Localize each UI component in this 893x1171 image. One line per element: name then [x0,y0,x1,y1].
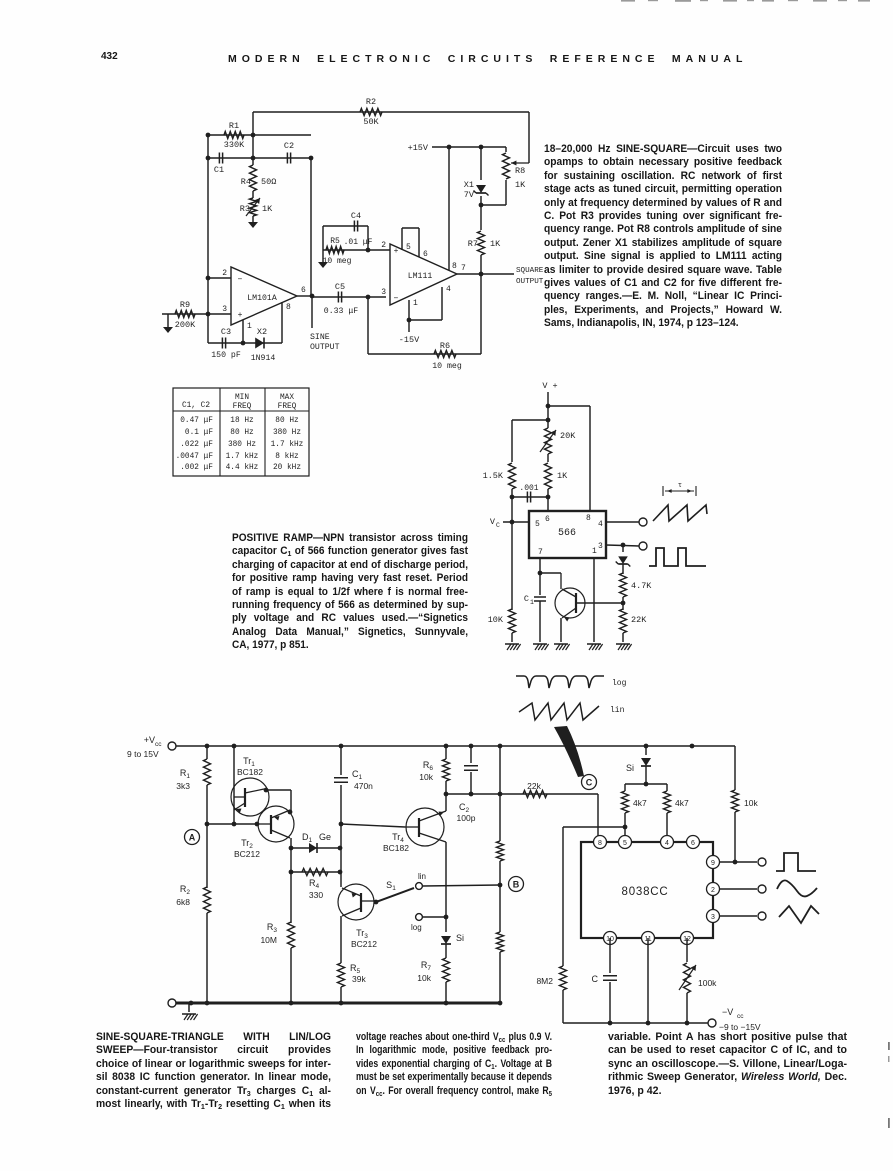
svg-text:7: 7 [461,264,466,273]
svg-text:10k: 10k [744,798,758,808]
svg-text:log: log [411,923,422,932]
svg-text:R4: R4 [241,177,251,187]
svg-text:R3: R3 [240,204,250,214]
svg-text:R8: R8 [515,166,525,176]
svg-text:6: 6 [423,250,428,259]
svg-text:3: 3 [381,288,386,297]
svg-text:R2: R2 [180,884,191,896]
svg-text:C: C [496,522,500,529]
svg-text:39k: 39k [352,974,366,984]
svg-text:1N914: 1N914 [251,354,276,363]
svg-text:0.47 μF: 0.47 μF [180,417,213,425]
svg-text:3: 3 [598,542,603,551]
svg-text:22K: 22K [631,615,647,625]
svg-text:3k3: 3k3 [176,781,190,791]
svg-text:-15V: -15V [399,335,420,345]
svg-text:4: 4 [665,840,669,847]
svg-text:566: 566 [558,528,576,539]
svg-text:C1, C2: C1, C2 [182,402,210,410]
svg-text:C: C [592,974,599,984]
svg-text:C2: C2 [284,141,294,151]
svg-text:4: 4 [446,285,451,294]
svg-text:2: 2 [222,269,227,278]
svg-text:10 meg: 10 meg [323,257,352,266]
svg-text:R9: R9 [180,300,190,310]
svg-text:C: C [586,778,593,788]
svg-text:4.4 kHz: 4.4 kHz [226,464,259,472]
svg-text:1: 1 [413,299,418,308]
svg-text:MAX: MAX [280,394,294,402]
svg-text:C1: C1 [214,165,224,175]
svg-text:S1: S1 [386,880,396,892]
svg-text:Ge: Ge [319,832,331,842]
svg-text:R7: R7 [421,960,432,972]
svg-text:−V: −V [722,1007,733,1017]
svg-text:LM101A: LM101A [247,294,277,303]
svg-text:τ: τ [678,482,682,490]
svg-text:10K: 10K [488,615,504,625]
svg-text:1K: 1K [490,239,501,249]
svg-text:1K: 1K [515,180,526,190]
svg-text:OUTPUT: OUTPUT [516,278,544,286]
svg-text:10k: 10k [417,973,431,983]
svg-text:6k8: 6k8 [176,897,190,907]
svg-text:+: + [394,247,399,256]
svg-text:5: 5 [406,243,411,252]
svg-text:R1: R1 [180,768,191,780]
svg-text:8: 8 [452,262,457,271]
svg-text:1.5K: 1.5K [483,471,504,481]
svg-text:R1: R1 [229,121,239,131]
svg-text:C3: C3 [221,327,231,337]
svg-text:5: 5 [535,520,540,529]
svg-text:R6: R6 [440,341,450,351]
svg-text:+V: +V [144,735,155,745]
svg-text:SQUARE: SQUARE [516,267,544,275]
svg-text:5: 5 [623,840,627,847]
svg-text:R4: R4 [309,878,320,890]
svg-text:80 Hz: 80 Hz [230,429,254,437]
svg-text:+: + [238,311,243,320]
svg-text:BC212: BC212 [351,939,377,949]
svg-text:+15V: +15V [408,143,429,153]
svg-text:V: V [490,517,496,527]
svg-text:2: 2 [711,887,715,894]
svg-text:7: 7 [538,548,543,557]
svg-text:20K: 20K [560,431,576,441]
svg-text:–: – [393,293,398,303]
svg-text:lin: lin [610,706,625,715]
svg-text:10M: 10M [260,935,277,945]
svg-text:R7: R7 [468,239,478,249]
svg-text:22k: 22k [527,781,541,791]
svg-text:50K: 50K [363,117,379,127]
svg-text:50Ω: 50Ω [261,177,276,187]
svg-text:4: 4 [598,520,603,529]
svg-text:18 Hz: 18 Hz [230,417,254,425]
svg-text:8 kHz: 8 kHz [275,453,299,461]
svg-text:–: – [237,274,242,284]
svg-text:1: 1 [530,599,534,606]
svg-text:LM111: LM111 [408,272,433,281]
svg-text:3: 3 [711,914,715,921]
svg-text:BC182: BC182 [383,843,409,853]
svg-text:log: log [612,679,627,688]
svg-text:1: 1 [592,547,597,556]
svg-text:SINE: SINE [310,333,330,342]
svg-text:.002 μF: .002 μF [180,464,213,472]
svg-text:6: 6 [545,515,550,524]
svg-text:X1: X1 [464,180,474,190]
svg-text:R5: R5 [330,237,340,246]
svg-text:R3: R3 [267,922,278,934]
svg-text:470n: 470n [354,781,373,791]
svg-text:1.7 kHz: 1.7 kHz [271,441,304,449]
svg-text:330: 330 [309,890,323,900]
svg-text:R6: R6 [423,760,434,772]
svg-text:80 Hz: 80 Hz [275,417,299,425]
svg-text:10k: 10k [419,772,433,782]
svg-text:OUTPUT: OUTPUT [310,343,340,352]
svg-text:Si: Si [626,763,634,773]
svg-text:6: 6 [691,840,695,847]
svg-text:100p: 100p [457,813,476,823]
svg-text:D1: D1 [302,832,313,844]
svg-text:lin: lin [418,872,426,881]
svg-text:0.1 μF: 0.1 μF [185,429,213,437]
svg-text:7V: 7V [464,190,475,200]
svg-text:V +: V + [542,381,557,391]
svg-text:200K: 200K [175,320,196,330]
svg-text:R2: R2 [366,97,376,107]
svg-text:C4: C4 [351,211,361,221]
svg-text:330K: 330K [224,140,245,150]
svg-text:cc: cc [155,741,162,748]
svg-text:1.7 kHz: 1.7 kHz [226,453,259,461]
svg-text:380 Hz: 380 Hz [228,441,256,449]
svg-text:150 pF: 150 pF [211,351,241,360]
svg-text:FREQ: FREQ [233,403,252,411]
svg-text:1K: 1K [262,204,273,214]
svg-text:.022 μF: .022 μF [180,441,213,449]
svg-text:100k: 100k [698,978,717,988]
svg-text:C1: C1 [352,769,363,781]
svg-text:8: 8 [286,303,291,312]
svg-text:.01 μF: .01 μF [344,238,373,247]
svg-text:3: 3 [222,305,227,314]
svg-text:20 kHz: 20 kHz [273,464,301,472]
svg-text:8038CC: 8038CC [622,886,669,898]
svg-text:8: 8 [586,514,591,523]
svg-text:A: A [189,833,196,843]
svg-text:cc: cc [737,1013,744,1020]
svg-text:8: 8 [598,840,602,847]
svg-text:FREQ: FREQ [278,403,297,411]
svg-text:2: 2 [381,241,386,250]
svg-text:B: B [513,880,520,890]
svg-text:4.7K: 4.7K [631,581,652,591]
svg-text:MIN: MIN [235,394,249,402]
svg-text:C5: C5 [335,282,345,292]
svg-text:380 Hz: 380 Hz [273,429,301,437]
svg-text:BC212: BC212 [234,849,260,859]
svg-text:1K: 1K [557,471,568,481]
svg-text:.001: .001 [519,484,538,493]
svg-text:4k7: 4k7 [675,798,689,808]
svg-text:X2: X2 [257,327,267,337]
svg-text:6: 6 [301,286,306,295]
svg-text:4k7: 4k7 [633,798,647,808]
svg-text:8M2: 8M2 [536,976,553,986]
svg-text:9: 9 [711,860,715,867]
svg-text:BC182: BC182 [237,767,263,777]
svg-text:0.33 μF: 0.33 μF [324,307,358,316]
svg-text:1: 1 [247,322,252,331]
svg-text:.0047 μF: .0047 μF [176,453,214,461]
svg-text:10 meg: 10 meg [432,362,462,371]
svg-text:Si: Si [456,933,464,943]
svg-text:9 to 15V: 9 to 15V [127,749,159,759]
svg-text:−9 to −15V: −9 to −15V [719,1022,761,1032]
svg-text:C: C [524,594,529,604]
